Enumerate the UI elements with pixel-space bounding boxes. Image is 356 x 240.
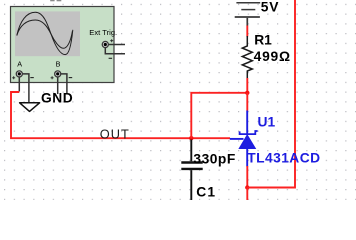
svg-text:U1: U1	[258, 114, 276, 129]
svg-text:5V: 5V	[261, 0, 279, 15]
shunt regulator U1 TL431	[230, 111, 258, 167]
svg-text:R1: R1	[254, 33, 272, 48]
power 5V	[235, 3, 261, 26]
svg-text:TL431ACD: TL431ACD	[247, 150, 320, 165]
wire scope A plus stub	[18, 77, 20, 91]
wire anode	[246, 166, 248, 188]
oscilloscope XSC1	[11, 7, 118, 83]
svg-text:GND: GND	[41, 91, 73, 106]
svg-text:C1: C1	[196, 185, 216, 200]
wire cathode	[246, 93, 248, 111]
svg-text:A: A	[17, 59, 22, 68]
wire feedback node to OUT	[191, 93, 247, 138]
junction R1/cathode node	[245, 91, 249, 95]
wire scope B minus stub	[61, 74, 67, 94]
junction OUT/C1 node	[189, 136, 193, 140]
svg-text:330pF: 330pF	[193, 151, 235, 166]
wire R1 bottom to node	[246, 78, 248, 93]
svg-text:B: B	[56, 59, 61, 68]
wire scope B plus stub	[57, 77, 59, 94]
wire scope A minus stub to ground	[23, 74, 29, 103]
resistor R1	[242, 36, 252, 79]
wire Ext Trig plus stub	[109, 44, 125, 46]
svg-text:499Ω: 499Ω	[254, 49, 291, 64]
wire anode down	[246, 188, 248, 201]
svg-text:OUT: OUT	[100, 127, 130, 142]
wire 5V to R1	[246, 26, 248, 37]
scope label XSC1 (clipped at top edge)	[50, 0, 61, 1]
junction anode node	[245, 185, 249, 189]
ground	[20, 103, 40, 112]
capacitor C1	[181, 140, 202, 201]
wire Ext Trig minus stub	[105, 48, 125, 54]
wire anode to right rail	[247, 0, 295, 188]
wire OUT net (scope A to TL431 ref)	[11, 92, 230, 138]
svg-text:Ext Trig.: Ext Trig.	[89, 28, 117, 37]
